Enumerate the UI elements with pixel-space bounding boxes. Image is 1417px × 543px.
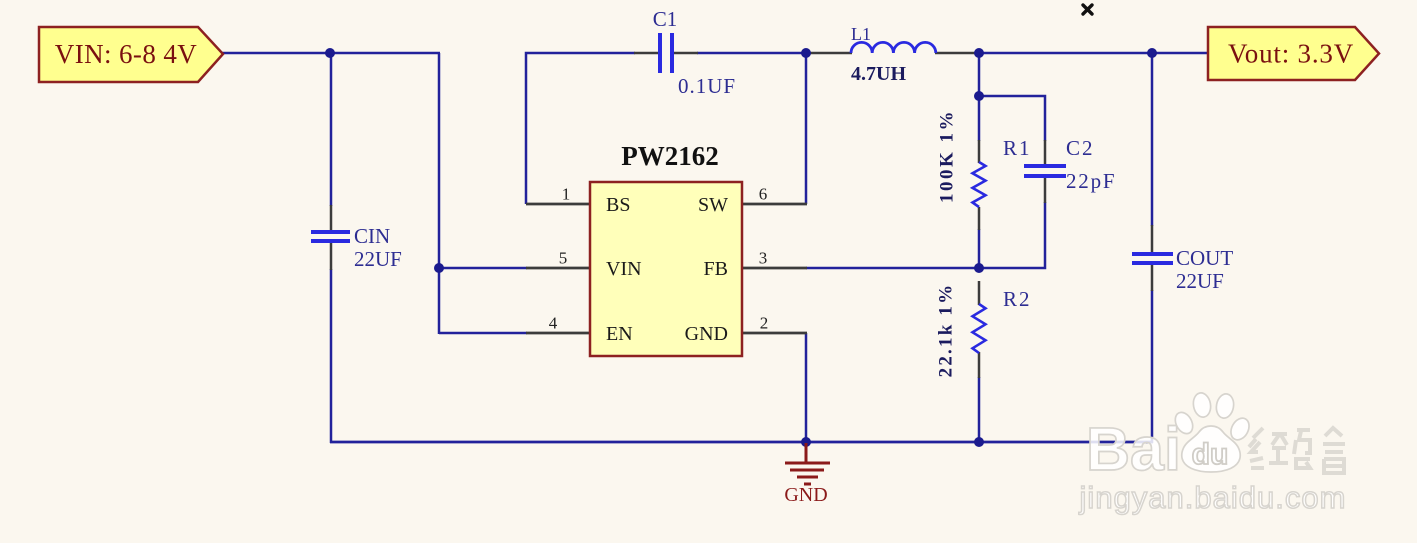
svg-text:SW: SW	[698, 194, 728, 216]
capacitor C2	[1024, 166, 1066, 176]
resistor R1	[973, 162, 986, 207]
inductor L1	[851, 42, 936, 53]
junction dot SW/C1/L1	[801, 48, 811, 58]
svg-text:BS: BS	[606, 194, 630, 216]
svg-text:4.7UH: 4.7UH	[851, 63, 906, 85]
svg-text:CIN: CIN	[354, 224, 390, 248]
junction dot COUT top	[1147, 48, 1157, 58]
wire COUT top feed	[1151, 53, 1154, 226]
svg-text:R1: R1	[1003, 136, 1032, 160]
svg-text:L1: L1	[851, 24, 871, 44]
wire R1 bottom to FB node	[978, 229, 981, 269]
svg-text:C2: C2	[1066, 136, 1095, 160]
svg-text:EN: EN	[606, 323, 633, 345]
wire EN pin feed from x439	[439, 332, 527, 335]
wire C2 bottom return to FB node	[979, 202, 1045, 268]
capacitor CIN	[311, 232, 350, 241]
wire COUT bottom to bottom rail	[1151, 290, 1154, 443]
svg-text:0.1UF: 0.1UF	[678, 74, 736, 98]
svg-text:VIN: 6-8 4V: VIN: 6-8 4V	[55, 39, 197, 69]
junction dot GND rail	[801, 437, 811, 447]
svg-text:PW2162: PW2162	[621, 141, 719, 171]
svg-text:6: 6	[759, 185, 768, 204]
IC U1 PW2162 body	[590, 182, 742, 356]
net flag VIN	[39, 27, 223, 82]
svg-text:du: du	[1192, 438, 1229, 471]
capacitor COUT	[1132, 254, 1173, 263]
svg-text:jingyan.baidu.com: jingyan.baidu.com	[1079, 480, 1347, 515]
resistor R1 pin stubs	[978, 140, 981, 163]
svg-text:3: 3	[759, 249, 768, 268]
wire CIN bottom to bottom rail	[330, 269, 333, 443]
inductor L1 pin stubs	[806, 52, 852, 55]
capacitor C2 pin stubs	[1044, 140, 1047, 164]
wire VIN pin feed from x439	[439, 267, 527, 270]
op IC U1 PW2162 pin stubs	[526, 204, 807, 333]
capacitor CIN pin stubs	[330, 205, 333, 231]
capacitor C1 pin stubs	[634, 52, 658, 55]
svg-text:VIN: VIN	[606, 258, 642, 280]
svg-text:FB: FB	[704, 258, 728, 280]
wire FB pin to node	[806, 267, 980, 270]
wire CIN top feed	[330, 53, 333, 206]
junction dot R1/C2 top	[974, 91, 984, 101]
svg-text:5: 5	[559, 249, 568, 268]
wire bottom rail	[330, 441, 1153, 444]
wire R1 top feed	[978, 53, 981, 141]
watermark paw icon	[1172, 392, 1253, 472]
svg-text:GND: GND	[784, 484, 827, 506]
svg-text:2: 2	[760, 314, 769, 333]
wire SW pin vertical up to top rail	[805, 53, 808, 204]
wire C1 branch corner x526 top segment	[526, 53, 635, 204]
svg-text:Vout: 3.3V: Vout: 3.3V	[1228, 39, 1354, 69]
svg-text:1: 1	[562, 185, 571, 204]
wire L1 right to Vout flag	[979, 52, 1208, 55]
junction dot FB node	[974, 263, 984, 273]
capacitor C1	[660, 33, 672, 73]
capacitor COUT pin stubs	[1151, 225, 1154, 252]
wire R2 bottom to bottom rail	[978, 377, 981, 443]
wire C1 right plate to SW junction	[697, 52, 807, 55]
svg-text:22UF: 22UF	[1176, 269, 1224, 293]
svg-text:Bai: Bai	[1086, 415, 1181, 483]
wire VIN flag to corner x439 (top rail left)	[222, 52, 440, 55]
wire GND pin down to bottom rail	[805, 333, 808, 443]
svg-text:C1: C1	[653, 7, 678, 31]
ground symbol	[785, 443, 830, 484]
svg-text:GND: GND	[685, 323, 728, 345]
svg-text:22pF: 22pF	[1066, 169, 1116, 193]
junction dot VIN/CIN	[325, 48, 335, 58]
svg-text:22.1k 1%: 22.1k 1%	[936, 283, 957, 378]
junction dot L1 out	[974, 48, 984, 58]
wire C2 top branch	[979, 96, 1045, 141]
wire vertical x439 from top rail down to EN row	[438, 53, 441, 334]
svg-text:COUT: COUT	[1176, 246, 1233, 270]
watermark baidu jingyan logo	[1079, 392, 1347, 515]
watermark chinese 经验	[1249, 428, 1345, 473]
junction dot R2 rail	[974, 437, 984, 447]
junction dot x439 VIN row	[434, 263, 444, 273]
svg-text:22UF: 22UF	[354, 247, 402, 271]
svg-text:4: 4	[549, 314, 558, 333]
resistor R2	[973, 304, 986, 353]
svg-text:100K 1%: 100K 1%	[937, 109, 958, 203]
net flag Vout	[1208, 27, 1379, 80]
resistor R2 pin stubs	[978, 281, 981, 305]
svg-text:R2: R2	[1003, 287, 1032, 311]
close button x	[1083, 5, 1092, 14]
